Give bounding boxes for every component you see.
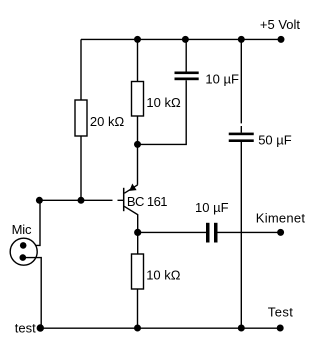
svg-text:test: test	[15, 321, 36, 336]
svg-text:BC 161: BC 161	[127, 194, 167, 209]
svg-text:Kimenet: Kimenet	[256, 211, 306, 226]
svg-text:10 µF: 10 µF	[195, 200, 229, 215]
svg-text:Test: Test	[268, 305, 293, 320]
svg-text:20 kΩ: 20 kΩ	[90, 114, 125, 129]
svg-text:+5 Volt: +5 Volt	[260, 17, 301, 32]
svg-text:10 µF: 10 µF	[205, 72, 239, 87]
svg-text:10 kΩ: 10 kΩ	[146, 95, 181, 110]
svg-text:Mic: Mic	[12, 222, 32, 237]
svg-text:50 µF: 50 µF	[258, 132, 292, 147]
svg-text:10 kΩ: 10 kΩ	[146, 268, 181, 283]
